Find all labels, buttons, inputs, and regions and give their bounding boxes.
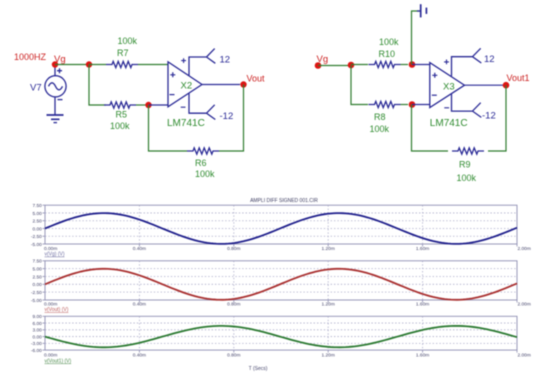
marker - (X2 supply) xyxy=(181,106,186,108)
svg-text:R9: R9 xyxy=(459,159,471,169)
svg-text:5.00: 5.00 xyxy=(32,267,42,273)
wire branch to R7 xyxy=(89,64,106,66)
+ input node junction dot xyxy=(409,61,416,68)
waveform plot v(Vg) plot frame xyxy=(43,205,518,246)
svg-text:0.80m: 0.80m xyxy=(227,301,240,307)
battery I (to + input node) xyxy=(417,4,426,17)
svg-text:1.20m: 1.20m xyxy=(322,301,335,307)
svg-text:LM741C: LM741C xyxy=(430,118,468,129)
svg-text:-3.00: -3.00 xyxy=(31,341,42,347)
curve v(Vout1) green inverted sine xyxy=(45,326,517,347)
wire Vg to branch node (right) xyxy=(318,65,351,67)
svg-text:6.00: 6.00 xyxy=(32,321,42,327)
ground (below V7) xyxy=(47,115,64,123)
wire node to X3 noninverting input xyxy=(412,64,430,66)
pin + (X2 noninverting) xyxy=(170,72,175,77)
wire node to X3 inverting input xyxy=(412,104,430,106)
X3 positive supply pin and connector xyxy=(452,48,482,76)
svg-text:R10: R10 xyxy=(379,49,396,59)
svg-text:X3: X3 xyxy=(443,81,455,92)
wire Vout down to feedback row xyxy=(219,85,244,152)
svg-text:R6: R6 xyxy=(195,158,207,168)
waveform plot v(Vout1) y-axis labels xyxy=(31,314,42,354)
svg-text:9.00: 9.00 xyxy=(32,314,42,320)
inverting node junction dot (right) xyxy=(409,101,416,108)
svg-text:2.50: 2.50 xyxy=(32,219,42,225)
wire branch down to R5 row xyxy=(89,65,106,106)
svg-text:100k: 100k xyxy=(118,36,138,46)
svg-text:-5.00: -5.00 xyxy=(31,242,42,248)
svg-text:-12: -12 xyxy=(220,111,234,122)
inverting node junction dot xyxy=(145,102,151,108)
svg-text:0.80m: 0.80m xyxy=(227,352,240,358)
wire node up to battery xyxy=(412,11,421,65)
svg-text:12: 12 xyxy=(484,54,495,65)
svg-text:-12: -12 xyxy=(482,110,496,121)
resistor R10 xyxy=(369,61,401,67)
node Vg (right) junction dot xyxy=(315,62,322,69)
waveform plot v(Vg) x-axis labels xyxy=(44,246,531,252)
svg-text:T (Secs): T (Secs) xyxy=(249,366,268,372)
svg-text:12: 12 xyxy=(220,55,231,66)
wire R10 to + input node xyxy=(401,64,409,66)
svg-text:7.50: 7.50 xyxy=(32,203,42,209)
svg-text:AMPLI DIFF SIGNED 001.CIR: AMPLI DIFF SIGNED 001.CIR xyxy=(250,198,318,204)
wire X2 output xyxy=(202,84,240,86)
svg-text:0.40m: 0.40m xyxy=(133,352,146,358)
svg-text:0.00: 0.00 xyxy=(32,226,42,232)
svg-text:2.00m: 2.00m xyxy=(518,352,531,358)
svg-text:V7: V7 xyxy=(30,83,42,94)
node Vout1 junction dot xyxy=(503,82,510,89)
X2 positive supply pin and connector xyxy=(189,49,215,76)
pin - (X2 inverting) xyxy=(170,94,175,96)
svg-text:100k: 100k xyxy=(457,173,477,183)
svg-text:2.00m: 2.00m xyxy=(518,246,531,252)
wire feedback to inverting node xyxy=(149,105,188,151)
svg-text:0.40m: 0.40m xyxy=(133,301,146,307)
svg-text:0.00: 0.00 xyxy=(32,334,42,340)
waveform plot v(Vg) y-axis labels xyxy=(31,203,42,248)
svg-text:Vout: Vout xyxy=(247,74,266,84)
svg-text:100k: 100k xyxy=(110,121,130,131)
X2 negative supply pin and connector xyxy=(189,94,215,120)
svg-text:0.00m: 0.00m xyxy=(44,352,57,358)
svg-text:0.00: 0.00 xyxy=(32,282,42,288)
wire branch down to R8 row xyxy=(351,66,368,105)
svg-text:-2.50: -2.50 xyxy=(31,234,42,240)
wire X3 output xyxy=(465,84,504,86)
svg-text:7.50: 7.50 xyxy=(32,259,42,265)
waveform plot v(Vout1) plot frame xyxy=(43,316,518,352)
curve v(Vg) blue sine xyxy=(45,213,517,244)
op-amp U X3 triangle xyxy=(430,63,465,108)
wire R5 to inverting node xyxy=(136,104,149,106)
branch junction dot (right) xyxy=(348,62,355,69)
waveform plot v(Vout) y-axis labels xyxy=(31,259,42,304)
waveform plot v(Vout1) x-axis labels xyxy=(44,352,531,358)
wire Vg to branch node xyxy=(55,64,89,66)
resistor R6 xyxy=(187,148,219,154)
op-amp U X2 triangle xyxy=(168,62,202,107)
svg-text:3.00: 3.00 xyxy=(32,328,42,334)
waveform plot v(Vout) x-axis labels xyxy=(44,301,531,307)
svg-text:0.40m: 0.40m xyxy=(133,246,146,252)
svg-text:R5: R5 xyxy=(116,110,128,120)
svg-text:100k: 100k xyxy=(370,124,390,134)
source V7 xyxy=(45,65,66,116)
svg-text:v(Vout1) (V): v(Vout1) (V) xyxy=(45,358,72,364)
resistor R5 xyxy=(104,102,136,108)
svg-text:1.60m: 1.60m xyxy=(416,301,429,307)
wire inverting node to op-amp xyxy=(149,104,169,106)
curve v(Vout) red sine xyxy=(45,269,517,300)
pin + (X3 noninverting) xyxy=(432,73,437,78)
resistor R9 xyxy=(452,148,484,154)
marker + (X3 supply) xyxy=(444,60,449,65)
pin - (X3 inverting) xyxy=(432,94,437,96)
svg-text:v(Vg) (V): v(Vg) (V) xyxy=(45,252,65,258)
resistor R7 xyxy=(106,61,138,67)
svg-text:1.60m: 1.60m xyxy=(416,246,429,252)
node Vout junction dot xyxy=(240,81,246,87)
svg-text:R8: R8 xyxy=(374,112,386,122)
svg-text:R7: R7 xyxy=(117,48,129,58)
svg-text:-2.50: -2.50 xyxy=(31,290,42,296)
svg-text:v(Vout) (V): v(Vout) (V) xyxy=(45,307,69,313)
marker - (X3 supply) xyxy=(444,107,449,109)
svg-text:1.20m: 1.20m xyxy=(322,352,335,358)
svg-text:2.00m: 2.00m xyxy=(518,301,531,307)
svg-text:Vout1: Vout1 xyxy=(507,73,530,83)
svg-text:X2: X2 xyxy=(181,81,193,92)
wire branch to R10 xyxy=(351,64,368,66)
svg-text:100k: 100k xyxy=(379,37,399,47)
svg-text:2.50: 2.50 xyxy=(32,274,42,280)
resistor R8 xyxy=(369,101,401,107)
svg-text:1.60m: 1.60m xyxy=(416,352,429,358)
svg-text:1000HZ: 1000HZ xyxy=(14,52,47,62)
waveform plot v(Vout) plot frame xyxy=(43,261,518,303)
wire Vout1 down to feedback row (right) xyxy=(488,85,506,151)
svg-text:-5.00: -5.00 xyxy=(31,298,42,304)
svg-text:1.20m: 1.20m xyxy=(322,246,335,252)
svg-text:-6.00: -6.00 xyxy=(31,348,42,354)
marker + (X2 supply) xyxy=(181,58,186,63)
wire R7 to op-amp noninverting input xyxy=(138,64,168,66)
wire R8 to inverting node (right) xyxy=(401,104,409,106)
X3 negative supply pin and connector xyxy=(452,94,482,117)
node Vg junction dot xyxy=(52,61,58,67)
wire feedback to inverting node (right) xyxy=(412,105,449,152)
branch junction dot xyxy=(86,61,92,67)
svg-text:LM741C: LM741C xyxy=(167,118,205,129)
svg-text:0.80m: 0.80m xyxy=(227,246,240,252)
svg-text:100k: 100k xyxy=(195,169,215,179)
svg-text:5.00: 5.00 xyxy=(32,211,42,217)
